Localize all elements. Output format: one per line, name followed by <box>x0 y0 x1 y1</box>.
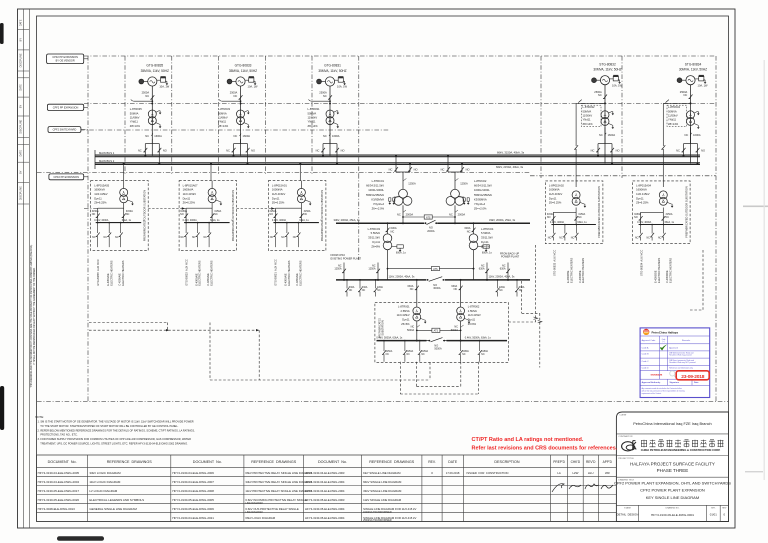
title block <box>616 412 728 522</box>
svg-text:SUBSTATION: SUBSTATION <box>381 320 384 335</box>
svg-text:66kV, 3150A, 40kA, 3s: 66kV, 3150A, 40kA, 3s <box>497 151 525 155</box>
svg-text:55MVA/35MVA: 55MVA/35MVA <box>474 193 492 197</box>
svg-text:ELECTRIC HEATERS: ELECTRIC HEATERS <box>668 258 672 283</box>
svg-text:E-4300A/E: E-4300A/E <box>284 273 288 286</box>
incoming feeder from CPF2 existing power plant <box>331 254 380 281</box>
svg-text:Z6=8%: Z6=8% <box>371 244 380 248</box>
svg-text:L-8TR002: L-8TR002 <box>468 304 480 308</box>
svg-text:NC: NC <box>454 288 458 291</box>
CNPC contractor logo <box>622 441 637 451</box>
svg-text:ELECTRIC HEATERS: ELECTRIC HEATERS <box>299 260 303 285</box>
svg-text:50MVA: 50MVA <box>668 109 677 113</box>
svg-text:NC: NC <box>180 236 184 239</box>
svg-text:NC: NC <box>635 237 639 240</box>
prefabricated outdoor substation L-8P015A05 <box>91 181 149 251</box>
svg-text:Approval Authority: Approval Authority <box>642 381 662 384</box>
svg-text:C-4300A/E: C-4300A/E <box>118 273 122 286</box>
svg-text:ELECTRICAL LEGENDS AND SYMBOLS: ELECTRICAL LEGENDS AND SYMBOLS <box>89 498 144 502</box>
svg-text:1600A: 1600A <box>332 134 340 138</box>
svg-text:NC: NC <box>462 354 466 356</box>
svg-text:TO THE START MOTOR. STARTING/S: TO THE START MOTOR. STARTING/STOPPED OF … <box>38 424 179 428</box>
svg-text:LV LOGIC DIAGRAM: LV LOGIC DIAGRAM <box>89 489 117 493</box>
svg-text:1600A: 1600A <box>693 133 701 137</box>
svg-text:1600kVA: 1600kVA <box>183 188 194 192</box>
svg-text:Z6=+2.0%: Z6=+2.0% <box>474 207 487 211</box>
svg-text:11/0.415kV: 11/0.415kV <box>272 192 286 196</box>
svg-text:Z8=14%: Z8=14% <box>308 124 319 128</box>
svg-text:ELECTRIC HEATERS: ELECTRIC HEATERS <box>109 260 113 285</box>
stamp table labels <box>642 339 700 395</box>
svg-text:HFY3-3130-05-ELE-DWG-0026: HFY3-3130-05-ELE-DWG-0026 <box>38 498 80 502</box>
11kV spare feeders <box>345 279 525 297</box>
svg-text:1250A: 1250A <box>334 268 342 271</box>
svg-text:1600kVA: 1600kVA <box>549 188 560 192</box>
svg-text:NO: NO <box>269 213 273 216</box>
svg-text:NC: NC <box>362 289 366 292</box>
svg-text:11/50kV: 11/50kV <box>583 114 593 118</box>
svg-text:PREFABRICATED OUTDOOR SUBSTATI: PREFABRICATED OUTDOOR SUBSTATION <box>143 190 147 242</box>
svg-text:Refer last revisions and CRS d: Refer last revisions and CRS documents f… <box>472 446 618 452</box>
svg-text:HFY3-3130-09-ELE-DWG-0001: HFY3-3130-09-ELE-DWG-0001 <box>651 513 694 517</box>
svg-text:ELECTRIC HEATERS: ELECTRIC HEATERS <box>570 258 574 283</box>
svg-text:Code: Code <box>662 339 666 341</box>
svg-text:1000L/1000L: 1000L/1000L <box>368 188 384 192</box>
svg-text:BY: BY <box>20 105 23 109</box>
svg-text:L-8P015A02: L-8P015A02 <box>549 183 564 187</box>
svg-text:10A, 1W: 10A, 1W <box>159 85 169 89</box>
svg-text:CPF2 POWER PLANT EXPANSION: CPF2 POWER PLANT EXPANSION <box>640 488 705 493</box>
svg-text:HLU: HLU <box>588 471 594 475</box>
svg-text:NC: NC <box>391 229 395 233</box>
svg-text:YNyn0+d: YNyn0+d <box>373 202 385 206</box>
svg-text:Code C: Code C <box>642 361 650 363</box>
aux mcc loads of L-8P015A05 <box>96 259 125 286</box>
svg-text:NO: NO <box>251 149 255 153</box>
svg-text:NO: NO <box>466 167 470 171</box>
three-winding transformer L-8TRC01 <box>366 155 417 224</box>
svg-text:5.5MVA: 5.5MVA <box>371 231 381 235</box>
svg-text:2.5MVA: 2.5MVA <box>468 309 477 313</box>
svg-text:NC: NC <box>407 354 411 356</box>
svg-text:YNd11: YNd11 <box>218 120 227 124</box>
svg-text:TREATMENT, UPS, DC POWER SOURC: TREATMENT, UPS, DC POWER SOURCE, LIGHTS,… <box>38 441 189 445</box>
svg-text:NC: NC <box>349 289 353 292</box>
svg-text:NC: NC <box>684 93 688 97</box>
svg-text:5.5MVA: 5.5MVA <box>481 231 491 235</box>
svg-text:ELECTRIC HEATERS: ELECTRIC HEATERS <box>209 260 213 285</box>
svg-text:WR: WR <box>605 471 610 475</box>
svg-text:HALFAYA PROJECT SURFACE FACILI: HALFAYA PROJECT SURFACE FACILITY <box>630 461 715 466</box>
svg-text:NO: NO <box>547 216 551 219</box>
svg-text:REFERENCE DRAWINGS: REFERENCE DRAWINGS <box>369 460 414 464</box>
svg-text:L-8TRC03: L-8TRC03 <box>368 227 381 231</box>
svg-text:NC: NC <box>192 236 196 239</box>
magnifier mark <box>670 371 677 378</box>
svg-text:DATE: DATE <box>20 19 23 26</box>
svg-text:NC: NC <box>499 289 503 292</box>
svg-text:SHT.: SHT. <box>711 508 716 510</box>
svg-text:1600A: 1600A <box>154 134 162 138</box>
svg-text:11/0.415kV: 11/0.415kV <box>397 313 410 317</box>
svg-text:YNd11: YNd11 <box>668 118 677 122</box>
svg-text:L-8P015A04: L-8P015A04 <box>636 183 651 187</box>
svg-text:3. FOR POWER SUPPLY PROVISIONS: 3. FOR POWER SUPPLY PROVISIONS FOR COMMO… <box>38 437 192 441</box>
svg-text:STG-80834: STG-80834 <box>685 62 702 66</box>
svg-text:ELECTRIC HEATERS: ELECTRIC HEATERS <box>198 260 202 285</box>
svg-text:GTG-80835 AUX MCC: GTG-80835 AUX MCC <box>96 259 100 286</box>
svg-text:PREP'D: PREP'D <box>553 460 565 464</box>
svg-text:HFY3-3130-05-ELE-DWG-0004: HFY3-3130-05-ELE-DWG-0004 <box>305 516 345 520</box>
svg-text:11/66kV: 11/66kV <box>308 116 318 120</box>
svg-text:Dyn11: Dyn11 <box>549 196 557 200</box>
svg-text:35MVA, 11kV, 50HZ: 35MVA, 11kV, 50HZ <box>318 69 346 73</box>
svg-text:L-8TR031: L-8TR031 <box>308 107 320 111</box>
svg-text:L-8TRC02: L-8TRC02 <box>474 179 487 183</box>
svg-text:EXISTING POWER PLANT: EXISTING POWER PLANT <box>331 257 362 260</box>
svg-text:17.09.2018: 17.09.2018 <box>446 471 460 475</box>
dashed aux-supply routing, right side <box>508 245 703 368</box>
generator STG-80832 <box>574 62 622 187</box>
svg-text:NC: NC <box>115 236 119 239</box>
svg-text:Approval Code: Approval Code <box>642 339 657 342</box>
svg-text:Z6=6.25%: Z6=6.25% <box>636 201 649 205</box>
svg-text:1600kVA: 1600kVA <box>636 188 647 192</box>
svg-text:HFY3-3130-05-ELE-DWG-0004: HFY3-3130-05-ELE-DWG-0004 <box>305 507 345 511</box>
svg-text:NC: NC <box>598 93 602 97</box>
svg-text:600A, 1s: 600A, 1s <box>396 251 407 254</box>
svg-text:33/11.5kV: 33/11.5kV <box>368 236 380 240</box>
33kV bus section <box>334 215 531 233</box>
svg-text:NC: NC <box>214 213 218 216</box>
svg-text:NO: NO <box>341 149 345 153</box>
incoming feeder from back-up power plant <box>479 252 520 281</box>
svg-text:Dyn11: Dyn11 <box>636 196 644 200</box>
svg-text:Z6=6.25%: Z6=6.25% <box>549 201 562 205</box>
svg-text:PREFABRICATED OUTDOOR SUBSTATI: PREFABRICATED OUTDOOR SUBSTATION <box>320 190 324 242</box>
svg-text:1600A: 1600A <box>243 134 251 138</box>
svg-text:1250A: 1250A <box>460 182 468 186</box>
svg-text:CHINA PETROLEUM ENGINEERING &: CHINA PETROLEUM ENGINEERING & CONSTRUCTI… <box>641 448 721 452</box>
two-winding transformer L-8TRC03 <box>368 222 407 280</box>
svg-text:3150A: 3150A <box>407 350 414 353</box>
svg-text:CPF2 PP EXPANSION: CPF2 PP EXPANSION <box>53 106 79 109</box>
svg-text:KEY SINGLE LINE DIAGRAM: KEY SINGLE LINE DIAGRAM <box>646 495 700 500</box>
svg-text:Dyn11: Dyn11 <box>481 240 489 244</box>
svg-text:NC: NC <box>323 134 327 138</box>
svg-text:50MVA: 50MVA <box>130 111 139 115</box>
svg-text:35MVA, 11kV, 50HZ: 35MVA, 11kV, 50HZ <box>229 69 257 73</box>
svg-text:NC: NC <box>676 149 680 153</box>
svg-text:NC: NC <box>421 354 425 356</box>
svg-text:Resubmit. Work may NOT proceed: Resubmit. Work may NOT proceed <box>669 361 695 364</box>
svg-text:Z6=6.25%: Z6=6.25% <box>94 201 107 205</box>
svg-text:CONTRACTOR: CONTRACTOR <box>618 435 633 438</box>
svg-text:NC: NC <box>467 229 471 233</box>
svg-text:NC: NC <box>646 237 650 240</box>
svg-text:GTG-80833: GTG-80833 <box>235 64 252 68</box>
svg-text:11/50kV: 11/50kV <box>668 114 678 118</box>
svg-text:NO: NO <box>701 149 705 153</box>
svg-text:GTG-80835: GTG-80835 <box>146 64 163 68</box>
generator GTG-80835 <box>130 64 170 165</box>
svg-text:THIS DRAWING AND THE INFORMATI: THIS DRAWING AND THE INFORMATION IT CONT… <box>30 244 33 388</box>
svg-text:L-8TRC04: L-8TRC04 <box>481 227 494 231</box>
svg-text:Approved: Approved <box>669 346 678 349</box>
svg-text:600A, 1s: 600A, 1s <box>482 251 493 254</box>
svg-text:E-4300B/E: E-4300B/E <box>566 270 570 283</box>
svg-text:Dyn11: Dyn11 <box>272 196 280 200</box>
svg-text:NC: NC <box>203 236 207 239</box>
svg-text:50MVA: 50MVA <box>218 111 227 115</box>
svg-text:NO: NO <box>163 149 167 153</box>
svg-text:Z8=14%: Z8=14% <box>130 124 141 128</box>
svg-text:1600kVA TRANSFORMER: 1600kVA TRANSFORMER <box>363 511 392 514</box>
svg-text:L-8P015A07: L-8P015A07 <box>183 183 198 187</box>
svg-text:BY OE VENDOR: BY OE VENDOR <box>56 59 75 62</box>
svg-text:REV.: REV. <box>428 460 436 464</box>
svg-text:NC: NC <box>658 237 662 240</box>
svg-text:63kA, 1s: 63kA, 1s <box>122 219 132 222</box>
svg-text:Code D: Code D <box>642 368 650 370</box>
svg-text:Signature: Signature <box>670 381 680 384</box>
svg-text:YNd11: YNd11 <box>308 120 317 124</box>
svg-text:E-4300D/E: E-4300D/E <box>653 270 657 283</box>
svg-text:NC: NC <box>104 236 108 239</box>
svg-text:33kV SINGLE LINE DIAGRAM: 33kV SINGLE LINE DIAGRAM <box>363 489 402 493</box>
svg-text:HFY3-3130-04-ELE-DWG-2005: HFY3-3130-04-ELE-DWG-2005 <box>38 471 80 475</box>
svg-text:NC: NC <box>323 94 327 98</box>
two-winding transformer L-8TRC04 <box>464 222 493 280</box>
svg-text:Z8=14%: Z8=14% <box>668 122 679 126</box>
svg-text:STG-80834 AUX MCC: STG-80834 AUX MCC <box>640 250 644 276</box>
svg-text:66kV PROTECTIVE RELAY SINGLE L: 66kV PROTECTIVE RELAY SINGLE LINE DIAGRA… <box>245 471 312 475</box>
svg-text:2000A: 2000A <box>427 230 435 233</box>
svg-text:L-8TR035: L-8TR035 <box>130 107 142 111</box>
svg-text:33/11.5kV: 33/11.5kV <box>481 236 493 240</box>
red date stamp 23-09-2018 <box>676 371 709 380</box>
svg-text:DESCRIPTION: DESCRIPTION <box>494 460 520 464</box>
svg-text:L-8P015A05: L-8P015A05 <box>94 183 109 187</box>
svg-text:2000A: 2000A <box>406 212 414 216</box>
red review annotation <box>472 437 618 452</box>
svg-text:DATE: DATE <box>20 84 23 91</box>
svg-text:ELECTRIC HEATERS: ELECTRIC HEATERS <box>121 260 125 285</box>
svg-text:Resubmit. Work may proceed: Resubmit. Work may proceed <box>669 354 691 357</box>
svg-text:L-8TRC01: L-8TRC01 <box>372 179 385 183</box>
svg-text:NC: NC <box>559 237 563 240</box>
11kV bus section <box>336 267 530 291</box>
svg-text:DISCIPLINE: DISCIPLINE <box>20 186 23 200</box>
svg-text:K3/95MVA: K3/95MVA <box>474 197 487 201</box>
svg-text:2000A: 2000A <box>458 212 466 216</box>
svg-text:C-4300B/E: C-4300B/E <box>578 270 582 283</box>
project title <box>618 458 714 473</box>
svg-text:0.4kV, 4000A: 0.4kV, 4000A <box>94 219 109 222</box>
svg-text:11/0.415kV: 11/0.415kV <box>636 192 650 196</box>
svg-text:0.4kV, 4000A: 0.4kV, 4000A <box>637 221 652 224</box>
svg-text:DATE: DATE <box>448 460 458 464</box>
dashed aux-supply routing, lower left <box>89 323 430 381</box>
svg-text:Code A: Code A <box>642 346 649 349</box>
svg-text:DOCUMENT No.: DOCUMENT No. <box>318 460 347 464</box>
svg-text:Z8=14%: Z8=14% <box>218 124 229 128</box>
svg-text:10A, 1W: 10A, 1W <box>337 85 347 89</box>
svg-text:L-8P015A01: L-8P015A01 <box>272 183 287 187</box>
label box connector stubs <box>81 59 88 177</box>
svg-text:3150A: 3150A <box>386 350 393 353</box>
svg-text:C-4300A/E: C-4300A/E <box>295 273 299 286</box>
svg-text:DRAWING NO.: DRAWING NO. <box>666 507 680 510</box>
svg-text:PetroChina Halfaya: PetroChina Halfaya <box>652 330 679 334</box>
svg-text:11/0.415kV: 11/0.415kV <box>94 192 108 196</box>
generator GTG-80831 <box>308 64 348 165</box>
svg-text:L-8TR032: L-8TR032 <box>583 105 595 109</box>
svg-text:DOCUMENT No.: DOCUMENT No. <box>193 460 222 464</box>
svg-text:L-8TR033: L-8TR033 <box>218 107 230 111</box>
svg-text:BY: BY <box>20 38 23 42</box>
svg-text:HFY3-3130-04-ELE-DWG-2004: HFY3-3130-04-ELE-DWG-2004 <box>305 480 345 484</box>
svg-text:LINE DIAGRAM: LINE DIAGRAM <box>245 511 262 514</box>
revision strip columns <box>18 9 30 528</box>
svg-text:ATS: ATS <box>434 330 439 333</box>
svg-text:HFY3-3130-04-ELE-DWG-2008: HFY3-3130-04-ELE-DWG-2008 <box>172 489 214 493</box>
svg-text:NC: NC <box>145 134 149 138</box>
svg-text:NC: NC <box>548 237 552 240</box>
svg-text:NC: NC <box>481 354 485 356</box>
svg-text:Code B: Code B <box>642 354 650 356</box>
svg-text:ELECTRIC HEATERS: ELECTRIC HEATERS <box>287 260 291 285</box>
svg-text:HFY3-3130-05-ELE-DWG-0005: HFY3-3130-05-ELE-DWG-0005 <box>172 498 214 502</box>
drawing title <box>614 479 731 500</box>
svg-text:CPF2 SWITCHYARD: CPF2 SWITCHYARD <box>53 129 77 132</box>
svg-text:0.4kV, 5000A, 63kA, 1s: 0.4kV, 5000A, 63kA, 1s <box>376 337 403 340</box>
svg-text:50MVA: 50MVA <box>583 109 592 113</box>
svg-text:1250A: 1250A <box>408 182 416 186</box>
svg-text:10A, 1W: 10A, 1W <box>248 85 258 89</box>
three-winding transformer L-8TRC02 <box>441 155 493 224</box>
svg-text:NC: NC <box>389 167 393 171</box>
svg-text:LINE DIAGRAM: LINE DIAGRAM <box>245 502 262 505</box>
svg-text:66/34.5/11.5kV: 66/34.5/11.5kV <box>474 184 492 188</box>
svg-text:11kV SINGLE LINE DIAGRAM: 11kV SINGLE LINE DIAGRAM <box>363 498 402 502</box>
svg-text:REFERENCE DRAWINGS: REFERENCE DRAWINGS <box>251 460 296 464</box>
svg-text:10A, 1W: 10A, 1W <box>698 83 708 87</box>
svg-text:ELECTRIC HEATERS: ELECTRIC HEATERS <box>657 258 661 283</box>
svg-text:DETAIL DESIGN: DETAIL DESIGN <box>617 513 639 517</box>
svg-text:5000A: 5000A <box>434 348 442 351</box>
svg-text:NO: NO <box>92 213 96 216</box>
svg-text:NC: NC <box>377 289 381 292</box>
CPF2 PP expansion boundary (dash-dot) <box>37 56 728 402</box>
svg-text:66kV LOGIC DIAGRAM: 66kV LOGIC DIAGRAM <box>245 516 275 520</box>
aux mcc loads of STG substations <box>552 250 672 283</box>
svg-text:1. SM IS THE START MOTOR OF GE: 1. SM IS THE START MOTOR OF GE GENERATOR… <box>38 420 194 424</box>
svg-text:0.4kV, 4000A: 0.4kV, 4000A <box>272 219 287 222</box>
svg-text:35MVA, 11kV, 50HZ: 35MVA, 11kV, 50HZ <box>141 69 169 73</box>
svg-text:NC: NC <box>293 236 297 239</box>
aux mcc loads of L-8P015A01 <box>274 259 303 286</box>
svg-text:HFY3-3130-05-ELE-DWG-0006: HFY3-3130-05-ELE-DWG-0006 <box>172 507 214 511</box>
svg-text:Z6=6%: Z6=6% <box>401 322 410 326</box>
svg-text:NC: NC <box>281 236 285 239</box>
svg-text:1250A: 1250A <box>368 268 376 271</box>
svg-text:NC: NC <box>92 236 96 239</box>
svg-text:55MVA/35MVA: 55MVA/35MVA <box>366 193 384 197</box>
svg-text:GTG-80831: GTG-80831 <box>324 64 341 68</box>
svg-text:Reference and information only: Reference and information only <box>669 367 693 370</box>
prefabricated LV substation (2x2.5MVA) <box>375 279 508 362</box>
svg-text:33kV PROTECTIVE RELAY SINGLE L: 33kV PROTECTIVE RELAY SINGLE LINE DIAGRA… <box>245 480 312 484</box>
svg-text:HFY3-3130-04-ELE-DWG-2004: HFY3-3130-04-ELE-DWG-2004 <box>38 480 80 484</box>
svg-text:3150A: 3150A <box>481 350 488 353</box>
svg-text:Dyn11: Dyn11 <box>468 318 476 322</box>
svg-text:Z6=6.25%: Z6=6.25% <box>183 201 196 205</box>
svg-text:CPF2 POWER PLANT EXPANSION, OH: CPF2 POWER PLANT EXPANSION, OHTL AND SWI… <box>614 480 731 485</box>
svg-text:11/66kV: 11/66kV <box>218 116 228 120</box>
svg-text:66/34.5/11.5kV: 66/34.5/11.5kV <box>366 184 384 188</box>
area label boxes <box>47 54 84 64</box>
svg-text:HFY3-3130-04-ELE-DWG-2007: HFY3-3130-04-ELE-DWG-2007 <box>172 480 214 484</box>
svg-text:MAIN BUS 1: MAIN BUS 1 <box>99 151 115 155</box>
svg-text:LA: LA <box>557 471 561 475</box>
svg-text:NC: NC <box>226 149 230 153</box>
contractor name (Chinese characters) <box>641 440 724 452</box>
svg-text:1600A: 1600A <box>608 133 616 137</box>
svg-text:50MVA: 50MVA <box>308 111 317 115</box>
svg-text:HFY3-3130-04-ELE-DWG-2003: HFY3-3130-04-ELE-DWG-2003 <box>305 471 345 475</box>
svg-text:NC: NC <box>410 288 414 291</box>
svg-text:SIGN/DATE: SIGN/DATE <box>651 374 663 377</box>
svg-text:0.4kV, 4000A: 0.4kV, 4000A <box>550 221 565 224</box>
prefab interconnect ties <box>84 207 275 209</box>
prefabricated outdoor substation L-8P015A07 <box>179 181 237 251</box>
svg-text:Dyn11: Dyn11 <box>402 318 410 322</box>
svg-text:Dyn11: Dyn11 <box>372 240 380 244</box>
generator GTG-80833 <box>218 64 258 165</box>
svg-text:NC: NC <box>571 237 575 240</box>
svg-text:11/0.415kV: 11/0.415kV <box>183 192 197 196</box>
svg-text:E-4300A/E: E-4300A/E <box>106 273 110 286</box>
svg-text:NC: NC <box>304 213 308 216</box>
svg-text:Dyn11: Dyn11 <box>183 196 191 200</box>
svg-text:NC: NC <box>234 94 238 98</box>
revision row entries <box>431 471 613 492</box>
svg-text:BY: BY <box>20 170 23 174</box>
svg-text:DISCIPLINE: DISCIPLINE <box>20 119 23 133</box>
svg-text:NC: NC <box>666 216 670 219</box>
svg-text:Z6=6%: Z6=6% <box>468 322 477 326</box>
dashed aux-supply routing, below LV substation <box>400 362 478 394</box>
svg-text:HFY3-3130-05-ELE-DWG-0017: HFY3-3130-05-ELE-DWG-0017 <box>38 489 80 493</box>
main bus 2 (66kV) <box>95 159 700 169</box>
svg-text:66kV SINGLE LINE DIAGRAM: 66kV SINGLE LINE DIAGRAM <box>363 480 402 484</box>
svg-text:L-8TR034: L-8TR034 <box>668 105 680 109</box>
svg-text:63kA, 1s: 63kA, 1s <box>577 221 587 224</box>
svg-text:NO: NO <box>634 216 638 219</box>
svg-text:DOCUMENT No.: DOCUMENT No. <box>48 460 77 464</box>
svg-text:NOTE:: NOTE: <box>35 415 44 419</box>
svg-text:NO: NO <box>180 213 184 216</box>
svg-text:PHASE THREE: PHASE THREE <box>657 468 689 473</box>
svg-text:PREFABRICATED OUTDOOR SUBSTATI: PREFABRICATED OUTDOOR SUBSTATION <box>597 186 601 238</box>
green approval checkmark <box>660 344 668 350</box>
svg-text:POWER PLANT: POWER PLANT <box>501 256 520 259</box>
svg-text:DISCIPLINE: DISCIPLINE <box>20 53 23 67</box>
svg-text:PROJECT TITLE: PROJECT TITLE <box>618 458 634 460</box>
svg-text:HFY3-3130-05-ELE-DWG-0003: HFY3-3130-05-ELE-DWG-0003 <box>305 498 345 502</box>
svg-text:0: 0 <box>431 471 433 475</box>
svg-text:HFY3-3130-04-ELE-DWG-2006: HFY3-3130-04-ELE-DWG-2006 <box>172 471 214 475</box>
